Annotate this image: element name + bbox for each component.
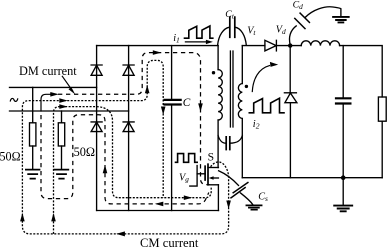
svg-text:50Ω: 50Ω — [74, 145, 95, 159]
svg-text:Ct: Ct — [225, 9, 235, 21]
svg-text:Cd: Cd — [293, 0, 304, 11]
svg-text:50Ω: 50Ω — [0, 150, 21, 164]
svg-text:DM current: DM current — [19, 64, 77, 78]
svg-text:CM current: CM current — [140, 236, 199, 248]
svg-text:C: C — [183, 97, 191, 109]
svg-text:Vd: Vd — [276, 25, 286, 37]
svg-text:i1: i1 — [173, 33, 180, 44]
svg-text:Vt: Vt — [247, 26, 256, 38]
svg-text:i2: i2 — [253, 119, 260, 130]
svg-text:S: S — [208, 150, 214, 163]
svg-text:Cs: Cs — [258, 191, 268, 202]
